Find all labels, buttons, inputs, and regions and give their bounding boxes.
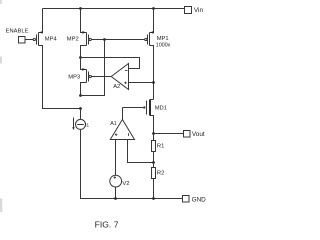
svg-text:1000x: 1000x: [156, 43, 171, 49]
svg-text:Vin: Vin: [194, 7, 204, 14]
svg-text:MP3: MP3: [68, 75, 80, 81]
svg-text:R1: R1: [157, 144, 164, 150]
svg-text:FIG. 7: FIG. 7: [95, 219, 119, 229]
svg-text:GND: GND: [192, 197, 207, 204]
svg-text:ENABLE: ENABLE: [6, 28, 29, 34]
svg-text:R2: R2: [157, 170, 164, 176]
svg-text:MD1: MD1: [155, 106, 167, 112]
svg-text:I1: I1: [85, 123, 89, 128]
svg-text:A2: A2: [113, 84, 120, 90]
svg-text:MP4: MP4: [45, 37, 58, 43]
svg-text:MP2: MP2: [67, 37, 79, 43]
svg-text:Vout: Vout: [192, 131, 205, 138]
svg-text:MP1: MP1: [157, 36, 169, 42]
svg-text:V2: V2: [122, 181, 129, 187]
svg-text:A1: A1: [110, 121, 117, 127]
